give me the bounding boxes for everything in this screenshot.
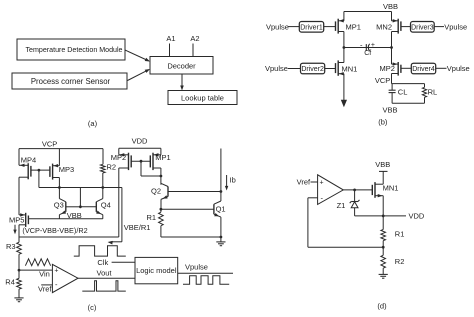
svg-text:MN1: MN1 — [342, 65, 358, 74]
resistor R4 — [17, 278, 22, 289]
transistor Q4 — [95, 202, 97, 212]
wire MP1 drain to VBB rail — [343, 12, 345, 21]
transistor Q1 — [213, 204, 215, 214]
wire MP2 drain down panel c — [118, 168, 120, 237]
node R2 bottom — [101, 186, 104, 189]
wire Vpulse output — [178, 272, 233, 274]
wire VDD rail panel c — [119, 147, 161, 149]
block Logic model — [135, 257, 178, 283]
svg-text:Driver2: Driver2 — [301, 66, 324, 73]
svg-text:MN2: MN2 — [376, 22, 392, 31]
svg-text:Vpulse: Vpulse — [447, 64, 470, 73]
wire mirror bus — [59, 187, 122, 189]
wire R3 to Vin node — [18, 254, 20, 270]
wire MP1 drain to node — [160, 168, 162, 176]
svg-text:Vpulse: Vpulse — [265, 64, 288, 73]
wire VDD to R1 — [382, 216, 384, 230]
transistor MN1 panel d — [374, 182, 376, 198]
wire Q2 emitter down — [160, 199, 162, 209]
wire Vpulse to Driver1 — [288, 26, 300, 28]
svg-text:VDD: VDD — [132, 137, 148, 146]
capacitor Cf — [365, 44, 367, 51]
wire R4 top — [18, 270, 20, 278]
capacitor CL — [389, 89, 396, 91]
svg-text:Process corner Sensor: Process corner Sensor — [31, 77, 111, 86]
wire MN2 source to node — [391, 32, 393, 48]
wire CL bottom plate to bottom rail — [391, 93, 393, 104]
node ground rail — [220, 236, 223, 239]
wire VDD rail to MP2 source — [118, 148, 120, 155]
svg-text:Z1: Z1 — [337, 201, 346, 210]
node Cf left — [343, 46, 346, 49]
transistor Q2 — [167, 187, 169, 197]
svg-text:Ib: Ib — [230, 175, 236, 184]
transistor MP5 — [25, 213, 27, 227]
transistor MP2 panel c — [128, 153, 130, 170]
node Q3 Q4 bases — [79, 205, 82, 208]
vpulse waveform — [183, 276, 229, 285]
wire Q1 base — [161, 208, 214, 210]
block Lookup table — [168, 91, 237, 105]
svg-text:Q3: Q3 — [54, 200, 64, 209]
svg-text:MP2: MP2 — [380, 64, 395, 73]
svg-text:MP5: MP5 — [9, 216, 24, 225]
block Temperature Detection Module — [17, 39, 125, 60]
wire A1 to Decoder — [169, 44, 171, 57]
resistor RL — [422, 87, 426, 97]
transistor MP3 — [52, 164, 54, 180]
supply bar VBB panel d — [379, 170, 388, 172]
wire node to Q2 collector — [160, 176, 162, 185]
block Decoder — [150, 57, 213, 75]
wire MP5 drain to bottom rail — [18, 225, 20, 243]
svg-text:VBB: VBB — [375, 160, 390, 169]
node MP3 drain — [58, 186, 61, 189]
wire Vref stub — [41, 284, 52, 286]
wire Vin node to comparator — [19, 269, 52, 271]
svg-text:VCP: VCP — [42, 139, 57, 148]
svg-text:Driver3: Driver3 — [411, 24, 434, 31]
node Q2 emitter R1 Q1 base — [160, 208, 163, 211]
wire VDD line — [355, 215, 406, 217]
wire Q1 collector up — [220, 192, 222, 202]
wire MP4 drain down to MP5 — [18, 177, 20, 215]
node Ib Q2 base Q1 collector — [220, 190, 223, 193]
svg-text:+: + — [319, 180, 323, 187]
wire Q3 base — [66, 206, 81, 208]
wire Q3 collector up — [58, 188, 60, 199]
svg-text:VDD: VDD — [409, 211, 425, 220]
svg-text:(d): (d) — [377, 302, 387, 311]
svg-text:Q2: Q2 — [151, 187, 161, 196]
wire Q2 base to Ib node — [168, 191, 221, 193]
wire Driver2 to MN1 gate — [325, 68, 336, 70]
node gates MP2 MP1 — [140, 160, 143, 163]
svg-text:MP3: MP3 — [59, 165, 74, 174]
driver Driver4 — [411, 63, 435, 74]
arrow Process corner Sensor to Decoder — [128, 70, 149, 81]
svg-text:Vpulse: Vpulse — [185, 262, 208, 271]
wire Vref to op-amp — [311, 181, 318, 183]
node Cf right — [390, 46, 393, 49]
resistor R2 panel d — [381, 255, 386, 268]
vout pulse waveform — [82, 281, 126, 291]
wire MP3 source to VCP rail — [58, 149, 60, 166]
wire gate node to MP1 drain — [140, 161, 142, 176]
wire Q4 base — [80, 206, 96, 208]
wire R1 to feedback node — [382, 241, 384, 248]
wire Driver1 to MP1 gate — [324, 26, 336, 28]
resistor R2 panel c — [101, 164, 106, 173]
svg-text:Driver4: Driver4 — [412, 66, 435, 73]
wire mirror bus down to clk arrow — [121, 188, 123, 242]
wire MP1 source to node — [343, 32, 345, 48]
svg-text:Driver1: Driver1 — [300, 24, 323, 31]
svg-text:Q4: Q4 — [101, 200, 111, 209]
svg-text:RL: RL — [428, 87, 438, 96]
svg-text:Q1: Q1 — [216, 204, 226, 213]
resistor R3 — [17, 242, 22, 254]
transistor MP1 — [337, 19, 339, 34]
wire R2 to ground — [382, 268, 384, 274]
wire MN2 gate to Driver3 — [401, 26, 411, 28]
transistor MN1 panel b — [337, 60, 339, 75]
wire Clk to logic model — [112, 261, 135, 263]
svg-text:Vin: Vin — [39, 270, 50, 279]
wire bottom rail to Q1 emitter — [161, 236, 221, 238]
wire bias bottom rail — [19, 236, 119, 238]
svg-text:Vref: Vref — [38, 285, 52, 294]
wire R4 to ground — [18, 289, 20, 298]
wire VCP rail panel c — [19, 148, 103, 150]
wire Q2 collector — [160, 183, 162, 184]
transistor Q3 — [65, 202, 67, 212]
wire Q4 collector up — [102, 188, 104, 199]
node op-amp output — [353, 189, 356, 192]
wire bases tap — [79, 188, 81, 207]
svg-text:MN1: MN1 — [383, 183, 399, 192]
svg-text:A2: A2 — [190, 34, 199, 43]
current arrow at MP5 — [14, 225, 16, 231]
wire Q4 emitter down — [102, 215, 104, 219]
svg-text:Decoder: Decoder — [167, 61, 196, 70]
node MN1 source VDD — [382, 215, 385, 218]
block Process corner Sensor — [12, 73, 127, 89]
arrow to clk generator — [111, 241, 122, 243]
node MP4-MP3 gate — [38, 169, 41, 172]
svg-text:R2: R2 — [395, 257, 405, 266]
wire feedback to op-amp minus — [308, 246, 383, 248]
svg-text:Vpulse: Vpulse — [266, 22, 289, 31]
svg-text:VBB: VBB — [383, 2, 398, 11]
wire MP4 gate to MP3 gate — [31, 169, 50, 171]
driver Driver1 — [299, 22, 323, 33]
svg-text:+: + — [54, 268, 58, 275]
resistor R1 panel c — [159, 212, 164, 226]
wire R2 to node — [102, 173, 104, 188]
transistor MP4 — [27, 163, 29, 179]
wire MN1 source down to VDD line — [382, 196, 384, 216]
svg-text:Logic model: Logic model — [136, 266, 177, 275]
wire MN1 source to ground arrow — [343, 74, 345, 102]
svg-text:VBB: VBB — [382, 105, 397, 114]
wire Cf middle — [344, 47, 392, 49]
transistor MN2 — [397, 19, 399, 34]
wire Q3 emitter down — [58, 215, 60, 219]
current arrow Ib — [226, 175, 228, 188]
wire MP2 gate to Driver4 — [401, 67, 411, 69]
svg-text:R2: R2 — [107, 163, 117, 172]
svg-text:MP4: MP4 — [21, 155, 36, 164]
svg-text:MP1: MP1 — [155, 153, 170, 162]
wire VCP load top rail — [392, 83, 425, 85]
wire node to MP2 drain panel b — [391, 48, 393, 65]
svg-text:R4: R4 — [5, 278, 15, 287]
wire RL bottom — [424, 97, 426, 103]
arrow Decoder to Lookup table — [181, 74, 183, 89]
svg-text:VBB: VBB — [67, 211, 82, 220]
wire MP3 drain to node — [58, 178, 60, 188]
svg-text:Clk: Clk — [97, 258, 108, 267]
svg-text:+: + — [371, 42, 375, 49]
wire op-amp output to MN1 gate — [343, 189, 372, 191]
svg-text:Temperature Detection Module: Temperature Detection Module — [26, 46, 123, 54]
wire R1 top — [160, 209, 162, 212]
wire MP2 gate to MP1 gate — [131, 160, 150, 162]
svg-text:MP1: MP1 — [346, 22, 361, 31]
svg-text:(a): (a) — [88, 119, 98, 128]
ground arrow below MN1 — [341, 100, 347, 108]
svg-text:Vout: Vout — [97, 269, 113, 278]
wire VBB to MN1 drain — [382, 171, 384, 184]
wire zener anode down to VDD line — [354, 208, 356, 216]
wire MP2 source to VCP — [391, 74, 393, 84]
svg-text:R1: R1 — [395, 229, 405, 238]
ground below Q1 — [216, 241, 225, 243]
node feedback — [382, 246, 385, 249]
ground panel d — [379, 273, 388, 275]
wire VBB top rail — [344, 11, 392, 13]
wire Q1 emitter down — [220, 217, 222, 242]
wire A2 to Decoder — [192, 44, 194, 57]
node Vin — [18, 269, 21, 272]
svg-text:Lookup table: Lookup table — [181, 94, 224, 103]
svg-text:Cf: Cf — [364, 50, 371, 57]
svg-text:R3: R3 — [6, 242, 16, 251]
svg-text:(c): (c) — [88, 303, 97, 312]
clk waveform — [74, 246, 126, 256]
svg-text:(VCP-VBB-VBE)/R2: (VCP-VBB-VBE)/R2 — [22, 226, 87, 235]
wire node to zener — [354, 190, 356, 202]
svg-text:Vref: Vref — [297, 177, 311, 186]
wire R1 bottom to rail — [160, 226, 162, 237]
ground below R4 — [14, 297, 23, 299]
driver Driver3 — [411, 22, 435, 33]
wire Driver4 to Vpulse — [436, 67, 447, 69]
wire VCP rail to R2 — [102, 149, 104, 165]
driver Driver2 — [301, 63, 325, 74]
op-amp comparator — [52, 264, 78, 292]
wire gate node down to mirror node — [38, 170, 40, 187]
wire Cf node to MN1 drain — [343, 48, 345, 63]
wire comparator output Vout — [78, 277, 135, 279]
wire Vpulse to Driver2 — [288, 68, 301, 70]
arrow Temperature Detection Module to Decoder — [125, 50, 149, 61]
node MP1 drain — [160, 175, 163, 178]
ramp waveform at Vin — [25, 259, 50, 266]
wire VCP to CL top plate — [391, 84, 393, 91]
transistor MP2 panel b — [397, 62, 399, 76]
wire feedback node to R2 — [382, 247, 384, 255]
svg-text:(b): (b) — [378, 118, 388, 127]
svg-text:VCP: VCP — [375, 76, 390, 85]
svg-text:A1: A1 — [166, 34, 175, 43]
wire VCP rail to MP4 source — [18, 149, 20, 166]
op-amp panel d — [318, 175, 344, 205]
svg-text:CL: CL — [398, 87, 408, 96]
wire Ib vertical — [220, 149, 222, 192]
wire MN2 drain to VBB rail — [391, 12, 393, 21]
wire load bottom rail VBB — [392, 102, 424, 104]
svg-text:R1: R1 — [147, 213, 157, 222]
svg-text:VBE/R1: VBE/R1 — [124, 223, 151, 232]
transistor MP1 panel c — [152, 153, 154, 170]
wire RL top — [424, 84, 426, 88]
resistor R1 panel d — [381, 230, 386, 241]
zener diode Z1 — [351, 201, 358, 203]
wire Driver3 to Vpulse — [434, 26, 444, 28]
svg-text:Vpulse: Vpulse — [444, 22, 467, 31]
wire VBB rail Q3 Q4 emitters and MP5 gate — [28, 218, 102, 220]
wire MP1 source to VDD rail — [160, 148, 162, 155]
